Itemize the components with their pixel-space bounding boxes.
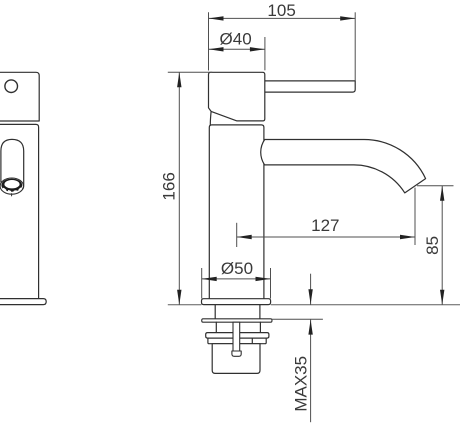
arrow 166 top — [177, 72, 181, 87]
side view aerator notches — [4, 188, 21, 191]
arrow 105 left — [209, 16, 224, 20]
extension line 105/dia40 left — [208, 12, 210, 70]
arrow 105 right — [340, 16, 355, 20]
arrow dia50 right — [256, 277, 271, 281]
arrow dia40 left — [209, 47, 224, 51]
svg-text:85: 85 — [423, 236, 442, 255]
dimension line 166 — [178, 72, 180, 304]
front view handle neck curve — [209, 111, 212, 125]
svg-text:127: 127 — [311, 216, 339, 235]
mounting surface line right — [271, 304, 460, 306]
front view lock nut tier — [208, 338, 266, 344]
svg-text:Ø50: Ø50 — [221, 259, 253, 278]
front view shank upper — [215, 305, 260, 319]
side view spout slot — [1, 139, 24, 189]
extension line 127 right — [414, 188, 416, 245]
front view base flange — [202, 299, 271, 305]
extension line 105 right — [354, 12, 356, 81]
side view base flange — [0, 299, 46, 305]
front view handle cap — [209, 72, 265, 121]
dimension line 105 — [209, 17, 356, 19]
extension line 127 left stub — [236, 223, 238, 247]
front view spout — [261, 139, 426, 192]
side view body — [0, 124, 39, 298]
front view nut facet line — [251, 338, 253, 344]
side view spout tube end outline — [0, 178, 23, 194]
front view threaded stud — [233, 322, 240, 351]
mounting surface line left — [168, 304, 202, 306]
front view lock nut flange — [206, 333, 269, 339]
extension line dia50 left — [201, 268, 203, 299]
arrow MAX35 up — [308, 320, 312, 335]
svg-text:Ø40: Ø40 — [220, 29, 252, 48]
arrow 166 bottom — [177, 290, 181, 305]
side view centerline stub — [11, 194, 13, 196]
arrow 127 right — [400, 235, 415, 239]
side view handle pivot hole — [5, 80, 18, 93]
arrow 85 bottom — [440, 290, 444, 305]
dimension line dia50 — [202, 278, 271, 280]
extension line dia40 right — [264, 37, 266, 70]
dimension line dia40 — [209, 48, 265, 50]
side view handle cap — [0, 72, 39, 121]
dimension line MAX35 lower — [310, 319, 312, 422]
arrow 85 top — [440, 186, 444, 201]
dimension line MAX35 upper — [310, 274, 312, 305]
arrow dia40 right — [250, 47, 265, 51]
arrow 127 left — [237, 235, 252, 239]
dimension line 85 — [441, 186, 443, 305]
front view nut body — [212, 344, 260, 374]
extension line dia50 right — [270, 268, 272, 299]
dimension line 127 — [237, 236, 415, 238]
front view body — [209, 125, 264, 299]
arrow dia50 left — [202, 277, 217, 281]
svg-text:166: 166 — [160, 172, 179, 200]
extension line 85 top — [417, 185, 454, 187]
extension line washer top — [272, 318, 323, 320]
front view lever rod — [263, 81, 355, 92]
front view stud end cap — [232, 351, 241, 356]
arrow MAX35 down — [308, 289, 312, 304]
front view shank lower — [216, 322, 260, 332]
extension line 166 top — [168, 71, 213, 73]
front view horseshoe washer — [202, 319, 272, 322]
svg-text:105: 105 — [267, 1, 295, 20]
side view aerator ring — [1, 179, 22, 192]
svg-text:MAX35: MAX35 — [292, 356, 311, 412]
